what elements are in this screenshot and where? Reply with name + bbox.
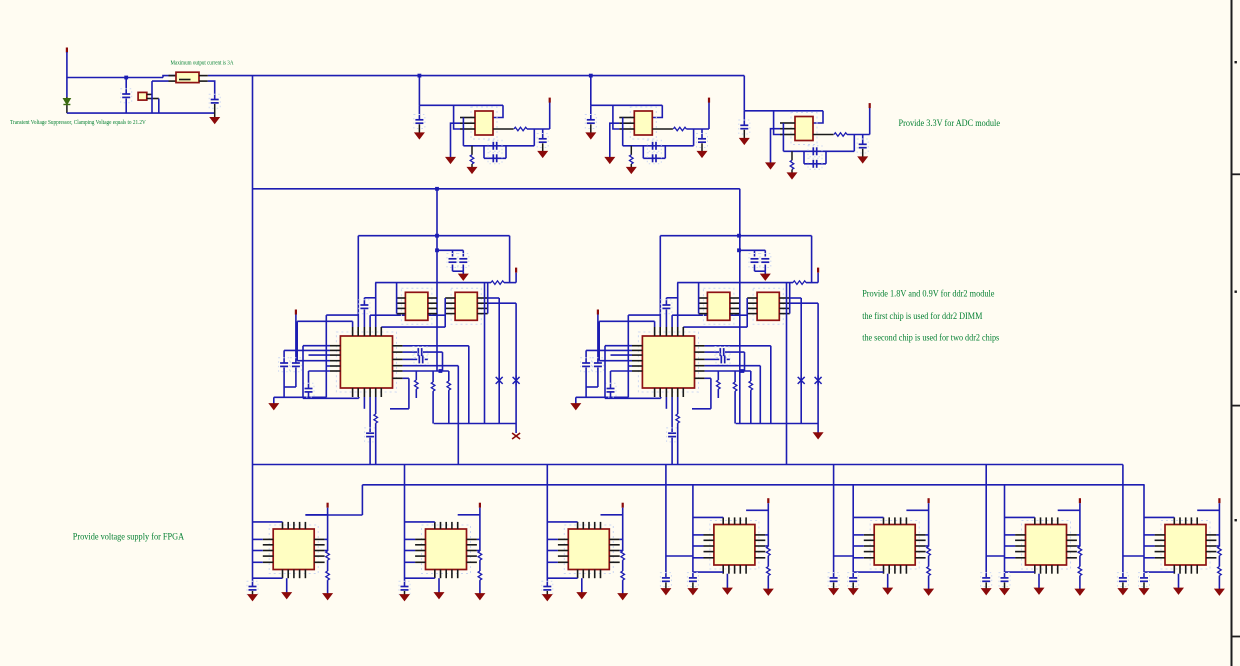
wire	[767, 556, 769, 567]
pin	[609, 538, 619, 540]
border zone tick	[1231, 636, 1240, 638]
pin	[558, 538, 568, 540]
ground GND4	[538, 151, 547, 157]
wire	[454, 105, 460, 129]
pin	[363, 388, 365, 397]
wire	[358, 397, 360, 398]
border zone mark	[1235, 519, 1237, 521]
wire	[693, 557, 704, 559]
capacitor C2	[209, 94, 220, 108]
pin	[397, 313, 406, 315]
pin	[722, 517, 724, 524]
pin	[699, 302, 708, 304]
wire	[705, 358, 720, 360]
wire	[479, 508, 481, 551]
ground	[512, 433, 520, 439]
pin	[263, 550, 273, 552]
wire	[358, 235, 509, 237]
varistor RV4	[815, 375, 822, 385]
wire	[305, 514, 362, 516]
wire	[597, 368, 599, 388]
junction	[435, 248, 439, 252]
wire	[423, 351, 443, 353]
wire	[1005, 557, 1016, 559]
capacitor C34	[399, 581, 410, 595]
pin	[665, 327, 667, 336]
wire	[405, 561, 416, 563]
junction	[435, 187, 439, 191]
wire	[509, 236, 511, 283]
wire	[515, 424, 517, 434]
wire	[672, 314, 747, 316]
wire	[403, 358, 418, 360]
wire	[666, 555, 693, 557]
wire	[671, 315, 673, 327]
pin	[314, 550, 324, 552]
pin	[380, 388, 382, 397]
pin	[1015, 557, 1025, 559]
wire	[1218, 576, 1220, 589]
wire	[309, 370, 331, 372]
wire	[692, 408, 711, 410]
pin 1	[780, 122, 795, 124]
capacitor C24	[749, 254, 760, 268]
wire	[283, 387, 285, 397]
pin	[747, 302, 757, 304]
wire	[151, 81, 153, 113]
wire	[627, 315, 629, 397]
wire	[705, 351, 719, 353]
wire	[770, 346, 772, 424]
wire	[660, 235, 811, 237]
capacitor C32	[667, 428, 678, 442]
wire	[800, 298, 802, 424]
wire	[252, 550, 263, 552]
pin	[695, 377, 705, 379]
pin	[888, 517, 890, 524]
wire	[297, 320, 352, 322]
pin	[747, 313, 757, 315]
pin	[477, 302, 487, 304]
pin	[745, 517, 747, 524]
pin	[730, 307, 739, 309]
wire	[852, 485, 854, 577]
wire fpga bus A	[253, 464, 1123, 466]
pin	[263, 555, 273, 557]
junction	[418, 74, 422, 78]
wire	[1079, 503, 1081, 546]
wire	[834, 555, 854, 557]
ground GND29	[688, 589, 697, 595]
ground GND22	[400, 595, 409, 601]
pin 4	[813, 134, 834, 136]
ground GND41	[1139, 589, 1148, 595]
ground GND19	[248, 595, 257, 601]
pin	[169, 75, 177, 77]
pin	[1155, 539, 1165, 541]
capacitor C20	[303, 383, 314, 397]
wire	[1218, 556, 1220, 567]
wire	[734, 371, 736, 382]
wire	[654, 321, 656, 327]
pin	[1034, 517, 1036, 524]
pin	[864, 551, 874, 553]
wire	[453, 270, 464, 272]
pin	[330, 370, 340, 372]
pin	[734, 517, 736, 524]
wire	[1144, 516, 1174, 518]
pin	[699, 307, 708, 309]
pin	[263, 561, 273, 563]
pin	[1057, 565, 1059, 574]
pin	[632, 354, 642, 356]
wire	[853, 534, 864, 536]
wire	[576, 396, 629, 398]
wire	[297, 360, 330, 362]
wire	[363, 310, 365, 328]
ground GND10	[766, 163, 775, 169]
pin	[677, 388, 679, 397]
pin	[1196, 565, 1198, 574]
pin	[199, 80, 208, 82]
svg-text:Provide 1.8V and 0.9V for ddr2: Provide 1.8V and 0.9V for ddr2 module	[862, 288, 994, 299]
wire	[361, 485, 363, 515]
wire rail	[677, 282, 793, 284]
wire	[403, 365, 459, 367]
wire	[432, 371, 434, 382]
wire	[586, 386, 598, 388]
pin	[704, 534, 714, 536]
wire	[252, 521, 282, 523]
capacitor C26	[661, 300, 672, 314]
wire	[705, 345, 771, 347]
wire	[754, 265, 756, 272]
pin	[282, 570, 284, 579]
power port VIN	[66, 48, 68, 53]
pin	[1045, 565, 1047, 574]
capacitor C16	[458, 254, 469, 268]
pin	[695, 351, 705, 353]
wire	[725, 351, 745, 353]
ground GND40	[1118, 589, 1127, 595]
wire	[630, 164, 632, 167]
wire	[1004, 485, 1006, 577]
wire	[283, 350, 285, 362]
wire	[418, 124, 420, 133]
wire	[693, 516, 723, 518]
wire	[283, 368, 285, 388]
wire	[67, 77, 163, 79]
capacitor C22	[414, 354, 428, 365]
pin	[147, 98, 159, 100]
wire	[546, 591, 548, 595]
pin	[609, 544, 619, 546]
wire	[302, 346, 304, 399]
resistor R1	[470, 155, 474, 164]
pin	[682, 327, 684, 336]
capacitor C1	[121, 89, 132, 103]
pin	[1067, 551, 1077, 553]
pin	[755, 557, 765, 559]
wire rail	[375, 282, 491, 284]
pin	[704, 551, 714, 553]
wire	[405, 538, 416, 540]
wire	[152, 80, 169, 82]
ground GND39	[1174, 588, 1183, 594]
wire	[488, 302, 516, 304]
wire	[660, 397, 662, 398]
pin	[558, 561, 568, 563]
wire	[415, 371, 417, 380]
pin	[352, 388, 354, 397]
pin	[745, 565, 747, 574]
pin	[445, 297, 455, 299]
wire	[1079, 556, 1081, 567]
pin	[900, 517, 902, 524]
wire	[542, 129, 544, 138]
wire	[1122, 465, 1124, 578]
wire U3 feed	[590, 76, 592, 106]
svg-text:Maximum output current is 3A: Maximum output current is 3A	[171, 60, 234, 67]
wire	[643, 157, 665, 159]
pin	[1179, 565, 1181, 574]
resistor R27	[1218, 547, 1222, 556]
wire	[158, 99, 160, 114]
wire	[444, 298, 446, 327]
pin	[314, 544, 324, 546]
svg-text:Provide 3.3V for ADC module: Provide 3.3V for ADC module	[899, 118, 1001, 129]
pin	[915, 557, 925, 559]
pin	[428, 307, 437, 309]
pin	[330, 360, 340, 362]
pin	[730, 302, 739, 304]
wire	[369, 315, 371, 327]
pin 4	[493, 128, 514, 130]
wire	[666, 297, 677, 299]
wire	[771, 129, 781, 163]
pin	[779, 297, 789, 299]
wire	[887, 574, 889, 588]
capacitor C6	[537, 134, 548, 148]
pin 4	[652, 128, 673, 130]
wire	[852, 582, 854, 588]
ground GND2	[446, 157, 455, 163]
pin 1	[460, 117, 475, 119]
pin	[1206, 539, 1216, 541]
wire	[692, 582, 694, 588]
capacitor C25	[760, 254, 771, 268]
wire	[605, 397, 661, 399]
wire	[705, 365, 761, 367]
capacitor C17	[359, 300, 370, 314]
pin	[330, 349, 340, 351]
ground GND13	[459, 274, 468, 280]
pin	[440, 570, 442, 579]
pin	[375, 327, 377, 336]
wire	[590, 124, 592, 133]
wire	[701, 143, 703, 151]
wire main 12V bus	[208, 75, 745, 77]
pin	[747, 297, 757, 299]
wire	[677, 397, 679, 414]
pin	[864, 534, 874, 536]
wire	[1005, 534, 1016, 536]
wire	[404, 465, 406, 587]
pin	[600, 522, 602, 529]
svg-text:the first chip is used for ddr: the first chip is used for ddr2 DIMM	[862, 311, 982, 322]
regulator U2	[471, 107, 497, 139]
wire	[295, 368, 297, 388]
pin	[704, 545, 714, 547]
wire	[390, 408, 409, 410]
ground	[813, 433, 822, 439]
wire	[214, 104, 216, 117]
wire	[622, 508, 624, 551]
pin	[304, 522, 306, 529]
pin	[704, 557, 714, 559]
pin	[415, 544, 425, 546]
wire	[1143, 582, 1145, 588]
pin	[1206, 551, 1216, 553]
wire	[597, 315, 599, 363]
wire	[746, 298, 748, 327]
capacitor C5	[488, 153, 502, 164]
wire	[442, 352, 444, 371]
wire U2 feed	[418, 76, 420, 106]
capacitor C36	[660, 573, 671, 587]
wire	[462, 271, 464, 274]
fpga regulator U11	[870, 521, 919, 570]
pin	[900, 565, 902, 574]
pin	[445, 522, 447, 529]
wire	[375, 423, 377, 464]
pin	[588, 522, 590, 529]
wire	[727, 358, 730, 360]
resistor R9	[447, 381, 451, 390]
ldo U6A	[703, 288, 734, 324]
fpga regulator U10	[710, 521, 759, 570]
pin	[434, 522, 436, 529]
wire	[463, 145, 534, 147]
fpga regulator U13	[1161, 521, 1210, 570]
wire	[790, 302, 818, 304]
wire	[765, 534, 768, 536]
wire	[693, 129, 695, 146]
pin	[747, 307, 757, 309]
pin	[558, 544, 568, 546]
capacitor C13	[808, 158, 822, 169]
wire	[405, 521, 435, 523]
pin	[1190, 517, 1192, 524]
power port VCC8	[327, 503, 329, 508]
resistor R20	[621, 571, 625, 580]
wire	[692, 485, 694, 577]
pin 1	[619, 117, 634, 119]
wire	[448, 390, 450, 423]
pin	[451, 522, 453, 529]
wire	[547, 538, 558, 540]
wire	[622, 560, 624, 571]
capacitor C8	[647, 140, 661, 151]
resistor R5	[790, 160, 794, 169]
pin	[457, 570, 459, 579]
wire	[671, 397, 673, 432]
wire	[906, 509, 928, 511]
capacitor C7	[585, 115, 596, 129]
pin	[659, 388, 661, 397]
pin	[654, 388, 656, 397]
wire	[504, 282, 516, 284]
pin	[1015, 551, 1025, 553]
pin	[1185, 565, 1187, 574]
wire	[425, 358, 428, 360]
power port VCC9	[479, 503, 481, 508]
pin	[1190, 565, 1192, 574]
wire	[581, 578, 583, 592]
pin	[415, 555, 425, 557]
pin	[779, 307, 789, 309]
pin	[609, 555, 619, 557]
pin	[739, 517, 741, 524]
pin	[1040, 565, 1042, 574]
pin	[169, 80, 177, 82]
pin	[1179, 517, 1181, 524]
wire	[744, 352, 746, 371]
pin	[734, 565, 736, 574]
wire	[746, 509, 768, 511]
capacitor C38	[828, 573, 839, 587]
wire U4 feed	[743, 76, 745, 111]
pin	[915, 551, 925, 553]
pin	[671, 388, 673, 397]
ground GND20	[475, 594, 484, 600]
pin	[467, 555, 477, 557]
svg-text:the second chip is used for tw: the second chip is used for two ddr2 chi…	[862, 332, 999, 343]
wire	[783, 150, 854, 152]
pin	[467, 538, 477, 540]
pin	[467, 550, 477, 552]
power port VCC3	[869, 103, 871, 108]
resistor R19	[621, 551, 625, 560]
ground GND23	[618, 594, 627, 600]
ground GND36	[982, 589, 991, 595]
wire	[928, 576, 930, 589]
wire	[750, 390, 752, 423]
wire	[208, 81, 215, 99]
pin	[671, 327, 673, 336]
pin	[397, 307, 406, 309]
wire	[363, 397, 365, 409]
wire	[326, 314, 359, 316]
pin	[755, 534, 765, 536]
capacitor C14	[857, 139, 868, 153]
resistor R13	[749, 381, 753, 390]
regulator U4	[791, 113, 817, 145]
ground GND34	[1075, 589, 1084, 595]
pin	[428, 297, 437, 299]
power port VCC1	[549, 98, 551, 103]
capacitor C15	[447, 254, 458, 268]
wire	[327, 560, 329, 571]
resistor R18	[478, 571, 482, 580]
wire	[628, 314, 661, 316]
pin	[1185, 517, 1187, 524]
junction	[741, 369, 745, 373]
pin	[779, 302, 789, 304]
wire	[610, 371, 612, 388]
pin	[1067, 534, 1077, 536]
wire	[599, 360, 632, 362]
